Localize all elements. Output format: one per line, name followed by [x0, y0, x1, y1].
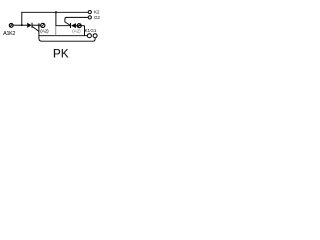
node junction left — [21, 24, 23, 26]
gate TH1 diagonal — [32, 27, 39, 32]
wire vertical down to G1 rail — [39, 25, 42, 41]
wire G1 rail — [42, 38, 96, 41]
thyristor TH1 — [27, 23, 32, 28]
wire TH2 anode — [76, 25, 85, 27]
svg-text:PK: PK — [53, 48, 69, 61]
terminal G2 — [88, 16, 91, 19]
terminal K1 aux — [87, 34, 91, 38]
wire top rail — [21, 11, 88, 13]
terminal K1(A2) middle — [41, 23, 45, 27]
svg-text:G2: G2 — [94, 15, 101, 20]
terminal A1K2 — [9, 24, 13, 28]
wire gate TH2 vertical — [65, 17, 67, 22]
wire A2 down to K1 rail — [84, 26, 86, 36]
thyristor TH2 — [71, 23, 76, 28]
node junction top rail — [55, 11, 57, 13]
wire vertical up left — [21, 12, 23, 25]
svg-text:(A2): (A2) — [40, 29, 49, 35]
wire G2 rail — [67, 16, 89, 18]
terminal A2 — [77, 24, 81, 28]
gate TH2 diagonal — [65, 22, 70, 26]
terminal K2 — [88, 10, 91, 13]
svg-text:G1: G1 — [90, 28, 96, 33]
wire TH1 cathode — [32, 24, 41, 26]
wire K1 rail — [39, 35, 88, 37]
wire from rail down to TH2 — [56, 12, 70, 25]
node junction K1 — [38, 23, 40, 27]
wire faint vertical — [55, 26, 57, 36]
svg-text:A1K2: A1K2 — [3, 31, 15, 37]
svg-text:(A2): (A2) — [72, 29, 81, 34]
wire main from A1K2 to TH1 — [13, 24, 27, 26]
svg-text:K2: K2 — [94, 9, 100, 14]
terminal G1 aux — [93, 34, 97, 38]
